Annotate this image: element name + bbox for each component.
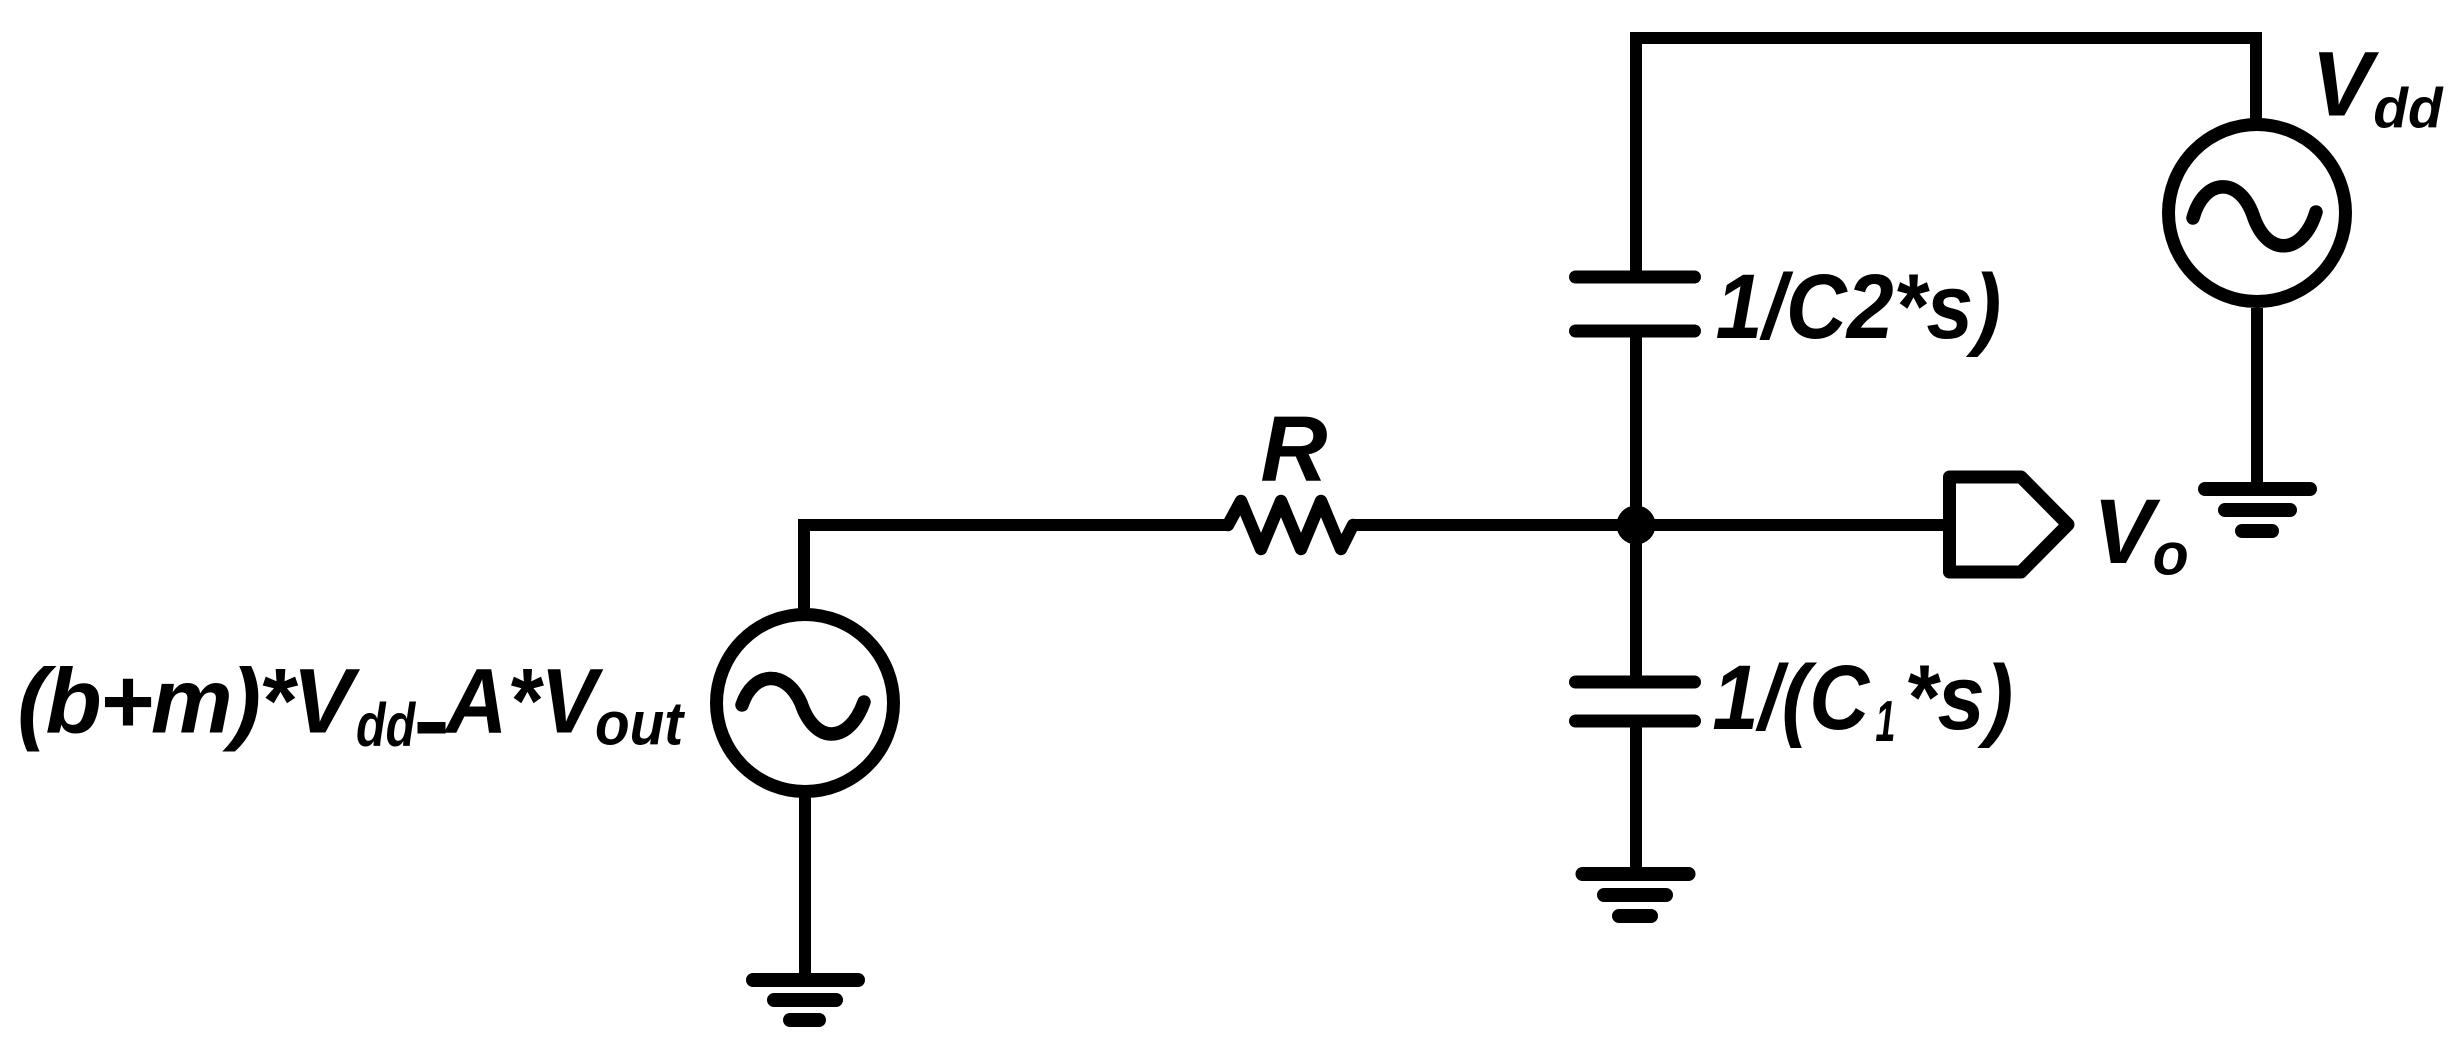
- label Vdd: [2311, 33, 2444, 139]
- svg-text:o: o: [2153, 521, 2189, 587]
- node junction dot: [1617, 506, 1656, 545]
- voltage source Vdd circle: [2169, 125, 2346, 302]
- svg-text:V: V: [2311, 33, 2379, 135]
- label 1/(C1*s): [1712, 646, 2013, 749]
- wire: controlled source up and right to resistor R: [804, 525, 1228, 610]
- svg-text:V: V: [2093, 481, 2161, 583]
- svg-text:A*V: A*V: [444, 650, 604, 753]
- voltage source left sine squiggle: [742, 678, 864, 734]
- svg-text:dd: dd: [356, 691, 416, 760]
- ground (left source) bar 1: [753, 973, 858, 987]
- voltage source Vdd sine squiggle: [2193, 187, 2316, 246]
- svg-text:*s): *s): [1904, 646, 2013, 749]
- svg-text:R: R: [1260, 397, 1327, 501]
- svg-text:1/C2*s): 1/C2*s): [1716, 255, 2002, 358]
- label Vo: [2093, 481, 2189, 587]
- resistor R zigzag: [1228, 501, 1353, 549]
- ground (Vdd source) bar 3: [2242, 524, 2272, 538]
- ground (left source) bar 2: [774, 993, 836, 1007]
- wire: C1 bottom to ground: [1630, 721, 1642, 874]
- svg-text:1/(C: 1/(C: [1712, 646, 1871, 749]
- ground (below C1) bar 3: [1619, 909, 1651, 923]
- wire: C2 bottom through node to C1 top: [1630, 331, 1642, 682]
- svg-text:dd: dd: [2373, 77, 2444, 140]
- wire: top loop from C2 top to Vdd source top: [1636, 38, 2256, 277]
- wire: left source bottom to ground: [799, 797, 811, 980]
- wire: resistor to node to Vo port: [1353, 519, 1950, 531]
- wire: Vdd source bottom to ground: [2251, 308, 2263, 489]
- ground (below C1) bar 2: [1604, 888, 1666, 902]
- svg-text:out: out: [595, 691, 685, 758]
- svg-text:(b+m)*V: (b+m)*V: [17, 651, 360, 753]
- capacitor C1 bottom plate: [1576, 715, 1695, 728]
- voltage source (b+m)*Vdd-A*Vout circle: [717, 615, 894, 792]
- capacitor C2 (impedance 1/C2*s) top plate: [1576, 271, 1695, 284]
- capacitor C1 (impedance 1/(C1*s)) top plate: [1576, 676, 1695, 689]
- ground (below C1) bar 1: [1583, 867, 1689, 881]
- label (b+m)*Vdd-A*Vout: [17, 650, 685, 760]
- ground (Vdd source) bar 1: [2205, 482, 2310, 496]
- output port Vo (pentagon flag): [1950, 477, 2069, 572]
- ground (left source) bar 3: [790, 1013, 819, 1027]
- ground (Vdd source) bar 2: [2225, 503, 2290, 517]
- capacitor C2 bottom plate: [1576, 325, 1695, 338]
